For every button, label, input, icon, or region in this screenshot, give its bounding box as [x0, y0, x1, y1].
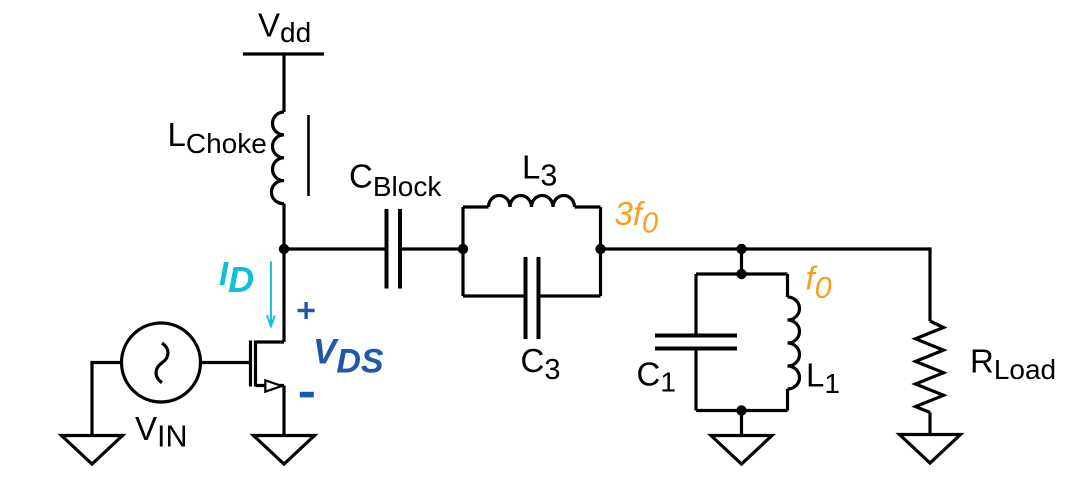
capacitor C3 plates: [526, 257, 539, 339]
3f0 tank top wire left segment: [463, 205, 489, 208]
current arrow I_D (cyan): [267, 262, 275, 327]
wire junction down to f0 tank: [740, 249, 743, 274]
transistor source arrow: [265, 380, 282, 391]
wire f0 tank to ground: [740, 411, 743, 436]
main output wire to load corner: [601, 249, 931, 321]
f0 tank top wire: [696, 272, 788, 275]
transistor drain lead: [256, 340, 285, 343]
L_Choke core bar: [307, 115, 310, 196]
3f0 tank bottom wire right segment: [541, 294, 601, 297]
ground under f0 tank: [711, 436, 772, 465]
V_IN sine squiggle: [156, 343, 168, 383]
transistor source lead: [256, 384, 285, 387]
source V_IN circle: [122, 323, 201, 402]
f0 tank right branch upper wire: [786, 274, 789, 297]
wire R_Load to ground: [928, 413, 931, 435]
3f0 tank top wire right segment: [575, 205, 601, 208]
transistor gate bar: [249, 341, 252, 387]
inductor L3 coil: [489, 196, 575, 208]
node 3f0 tank left dot: [458, 244, 468, 254]
capacitor C1 plates: [655, 336, 737, 349]
Vdd supply bar: [243, 52, 324, 55]
inductor L_Choke coil: [271, 112, 284, 204]
wire C_Block to 3f0 tank: [402, 247, 463, 250]
node f0 tank bottom dot: [736, 405, 746, 415]
node output junction dot: [736, 244, 746, 254]
3f0 tank right vertical wire: [599, 207, 602, 296]
wire V_IN left to ground: [92, 363, 120, 436]
capacitor C_Block plates: [387, 209, 401, 289]
node 3f0 tank right dot: [595, 244, 605, 254]
label plus sign (blue): [298, 302, 315, 319]
wire V_IN to gate: [202, 361, 249, 364]
3f0 tank left vertical wire: [461, 207, 464, 296]
f0 tank bottom wire: [696, 409, 788, 412]
inductor L1 coil: [788, 297, 800, 389]
f0 tank left branch upper wire: [694, 274, 697, 334]
ground under transistor source: [254, 436, 315, 465]
transistor channel bar: [254, 341, 257, 387]
f0 tank left branch lower wire: [694, 351, 697, 411]
node f0 tank top dot: [736, 269, 746, 279]
ground under V_IN: [62, 436, 123, 465]
3f0 tank bottom wire left segment: [463, 294, 524, 297]
wire Vdd bar to choke top: [282, 54, 285, 112]
f0 tank right branch lower wire: [786, 389, 789, 411]
wire choke bottom to drain: [282, 204, 285, 343]
resistor R_Load zigzag: [916, 321, 944, 413]
ground under R_Load: [900, 435, 961, 464]
wire drain node to C_Block: [284, 247, 385, 250]
wire source to ground: [282, 386, 285, 436]
label minus sign (blue): [300, 392, 314, 398]
node drain junction dot: [279, 244, 289, 254]
